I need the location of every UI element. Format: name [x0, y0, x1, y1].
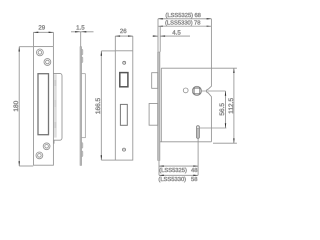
dimension 180 — [12, 47, 33, 166]
strike plate (view A outline) — [34, 47, 54, 166]
keep side view plate — [80, 47, 82, 166]
forend screw hole bottom — [123, 148, 126, 151]
screw hole A4 — [36, 152, 43, 159]
dimension (LSS5325) 68 — [158, 12, 211, 52]
deadbolt front face — [120, 73, 128, 87]
svg-text:180: 180 — [12, 101, 20, 112]
case front edge — [160, 68, 162, 142]
case back edge — [206, 19, 211, 142]
svg-text:78: 78 — [194, 19, 200, 26]
dimension 56.5 — [218, 91, 226, 128]
screw hole A1 — [37, 49, 44, 56]
keep side view lip (view B) — [80, 74, 85, 138]
svg-text:56.5: 56.5 — [218, 103, 226, 116]
svg-text:112.5: 112.5 — [227, 98, 235, 114]
svg-text:29: 29 — [38, 24, 45, 31]
svg-text:68: 68 — [194, 12, 200, 19]
screw hole A3 — [43, 143, 50, 150]
forend front view (view C) — [115, 51, 133, 160]
dimension 166.5 — [94, 51, 115, 160]
svg-text:26: 26 — [120, 28, 127, 35]
svg-text:58: 58 — [191, 176, 197, 183]
top lug — [152, 73, 158, 89]
dimension 29 — [34, 24, 54, 46]
dimension (LSS5325) 48 — [159, 165, 198, 173]
svg-text:166.5: 166.5 — [94, 98, 102, 114]
case hole — [183, 88, 188, 93]
keep side screw boss B1 — [82, 49, 83, 55]
keyhole extension line — [200, 127, 227, 129]
screw hole A2 — [44, 59, 51, 66]
follower extension line — [202, 90, 226, 92]
strike plate lip shading — [54, 74, 57, 137]
svg-text:(LSS5325): (LSS5325) — [159, 167, 187, 174]
dimension 4.5 — [152, 26, 190, 52]
dimension (LSS5330) 78 — [158, 19, 211, 27]
svg-text:(LSS5330): (LSS5330) — [165, 19, 193, 26]
112.5 bottom extension — [213, 142, 237, 144]
dimension 1.5 — [71, 24, 94, 47]
keep side screw boss B3 — [82, 143, 83, 149]
dimension 112.5 — [227, 68, 235, 143]
lock forend edge view (view D) — [158, 52, 160, 160]
deadbolt side view — [149, 104, 158, 126]
bottom left extension — [158, 161, 160, 175]
svg-text:48: 48 — [191, 167, 197, 174]
lower cutout — [120, 104, 127, 125]
keep side screw boss B4 — [82, 151, 83, 157]
bolt slot cutout — [38, 74, 49, 135]
keyhole centre line — [197, 138, 199, 175]
follower — [192, 86, 201, 95]
keyhole — [196, 126, 199, 139]
strike plate lip — [53, 73, 62, 143]
keep side screw boss B2 — [82, 57, 83, 63]
case bottom edge — [160, 141, 211, 143]
case top edge + 112.5 top extension — [161, 67, 237, 69]
svg-text:4.5: 4.5 — [172, 29, 181, 36]
svg-text:(LSS5325): (LSS5325) — [165, 12, 193, 19]
forend screw hole top — [123, 61, 126, 64]
svg-text:(LSS5330): (LSS5330) — [158, 176, 186, 183]
dimension 26 — [115, 28, 133, 51]
dimension (LSS5330) 58 — [158, 175, 198, 183]
svg-text:1.5: 1.5 — [76, 24, 85, 31]
